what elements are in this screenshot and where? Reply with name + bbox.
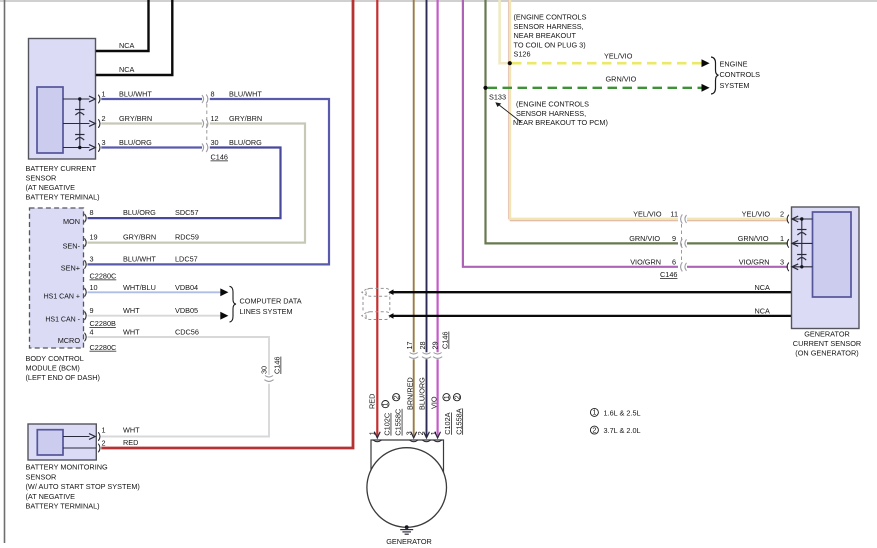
C146 arcs GRN/VIO row	[681, 239, 687, 248]
generator pin arc 3	[409, 440, 418, 442]
connector C146 arcs on BLU/ORG	[422, 353, 431, 359]
svg-text:30: 30	[211, 138, 219, 147]
svg-text:SEN-: SEN-	[63, 242, 81, 251]
svg-text:S133: S133	[489, 93, 506, 102]
connector C146 dashed link	[206, 104, 208, 143]
svg-text:VIO: VIO	[430, 396, 439, 409]
svg-text:2: 2	[592, 425, 596, 434]
svg-text:GRN/VIO: GRN/VIO	[738, 234, 769, 243]
svg-text:SDC57: SDC57	[175, 208, 199, 217]
internal bus vertical	[801, 219, 803, 267]
generator pin arrow RED	[374, 432, 380, 438]
svg-text:LINES SYSTEM: LINES SYSTEM	[240, 307, 293, 316]
svg-text:3: 3	[102, 138, 106, 147]
svg-text:SENSOR: SENSOR	[26, 472, 57, 481]
svg-text:C102C: C102C	[383, 413, 392, 436]
connector C146 arcs on VIO	[433, 353, 442, 359]
svg-text:C102A: C102A	[443, 412, 452, 434]
NCA wire upper to generator current sensor	[388, 289, 393, 295]
connector C146 arcs row1	[202, 94, 208, 103]
svg-text:YEL/VIO: YEL/VIO	[604, 52, 633, 61]
svg-text:C2280C: C2280C	[90, 343, 117, 352]
internal lead pin 2	[63, 123, 90, 125]
svg-text:RED: RED	[367, 394, 376, 409]
svg-text:BLU/ORG: BLU/ORG	[123, 208, 156, 217]
svg-text:11: 11	[670, 210, 678, 219]
connector C146 arcs on WHT vertical	[264, 376, 273, 382]
sensor capacitor lower	[797, 255, 806, 261]
pin 3 arrow	[89, 145, 95, 151]
wire RED from BMS pin2	[101, 0, 353, 448]
pin 2 arc	[98, 119, 100, 128]
svg-text:MCRO: MCRO	[58, 336, 81, 345]
circled 2 (C1558C)	[392, 394, 401, 401]
svg-text:BLU/ORG: BLU/ORG	[417, 377, 426, 410]
svg-text:2: 2	[416, 431, 425, 435]
brace computer data	[230, 286, 237, 322]
svg-text:2: 2	[452, 395, 461, 399]
wire BLU/WHT C146 pin8 to BCM SEN+	[88, 99, 330, 264]
svg-text:6: 6	[672, 257, 676, 266]
svg-text:MODULE (BCM): MODULE (BCM)	[26, 364, 80, 373]
wire BLU/WHT pin1 to C146	[101, 98, 202, 100]
svg-text:(AT NEGATIVE: (AT NEGATIVE	[26, 183, 76, 192]
svg-text:1: 1	[383, 402, 390, 406]
wire BLU/ORG pin3 to C146	[101, 146, 202, 148]
svg-text:CONTROLS: CONTROLS	[720, 70, 761, 79]
svg-text:BATTERY CURRENT: BATTERY CURRENT	[26, 164, 97, 173]
dashed YEL/VIO wire to engine controls	[512, 62, 702, 65]
battery current sensor caption	[26, 164, 100, 202]
wire WHT CAN-	[88, 315, 221, 317]
svg-text:GENERATOR: GENERATOR	[386, 537, 432, 546]
wire BLU/ORG generator pin 2	[426, 0, 428, 352]
svg-text:NEAR BREAKOUT TO PCM): NEAR BREAKOUT TO PCM)	[513, 118, 608, 127]
svg-text:29: 29	[430, 341, 439, 349]
svg-text:17: 17	[405, 341, 414, 349]
svg-text:BLU/ORG: BLU/ORG	[119, 138, 152, 147]
circled 2 (C1558A)	[452, 394, 461, 401]
YEL/VIO pale edge on horizontal	[510, 220, 678, 222]
sensor capacitor element upper	[75, 110, 84, 116]
svg-text:C1558A: C1558A	[454, 408, 463, 435]
brace engine controls	[711, 57, 719, 94]
svg-text:SEN+: SEN+	[61, 263, 80, 272]
sensor pin 3 lead w/ arrow	[792, 266, 813, 268]
BCM pin HS1 CAN+ arc	[85, 288, 87, 297]
wire YEL/VIO C146 to sensor	[687, 218, 788, 221]
junction dot	[78, 146, 81, 149]
S133 leader arrow	[499, 105, 522, 123]
ghost pin chevron 2	[362, 312, 367, 318]
svg-text:GRY/BRN: GRY/BRN	[119, 114, 152, 123]
svg-text:GRN/VIO: GRN/VIO	[606, 75, 637, 84]
generator pin arc 1b	[433, 440, 442, 442]
svg-text:VIO/GRN: VIO/GRN	[739, 257, 770, 266]
svg-text:SENSOR HARNESS,: SENSOR HARNESS,	[514, 22, 584, 31]
sensor capacitor upper	[797, 230, 806, 236]
svg-text:MON: MON	[63, 217, 80, 226]
arrow into engine controls (YEL/VIO)	[702, 59, 710, 67]
svg-text:19: 19	[90, 233, 98, 242]
splice S133 dot	[483, 86, 487, 90]
svg-text:VDB05: VDB05	[175, 306, 198, 315]
wire RED generator pin 1	[376, 0, 378, 437]
battery monitoring sensor outer box	[28, 424, 96, 460]
circled 1 (C102C)	[382, 401, 390, 408]
wire BLU/ORG C146 pin30 to BCM MON	[88, 148, 281, 219]
svg-text:NCA: NCA	[755, 307, 771, 316]
sensor pin 1 arc	[787, 239, 789, 248]
svg-text:3: 3	[780, 257, 784, 266]
legend circled 1	[590, 408, 598, 417]
generator pin arc 1	[373, 440, 382, 442]
svg-text:BATTERY MONITORING: BATTERY MONITORING	[26, 463, 108, 472]
connector C146 arcs row3	[202, 143, 208, 152]
connector C146 arcs row2	[202, 119, 208, 128]
pin 2 arrow	[89, 121, 95, 127]
generator body circle	[367, 448, 447, 528]
legend circled 2	[590, 425, 598, 434]
sensor pin 3 arc	[787, 263, 789, 272]
svg-text:WHT/BLU: WHT/BLU	[123, 283, 156, 292]
generator pin arrow BRN/RED	[411, 432, 417, 438]
svg-text:BATTERY TERMINAL): BATTERY TERMINAL)	[26, 502, 100, 511]
svg-text:S126: S126	[514, 50, 531, 59]
svg-text:RDC59: RDC59	[175, 233, 199, 242]
svg-text:12: 12	[211, 114, 219, 123]
svg-text:1: 1	[367, 431, 376, 435]
svg-text:C146: C146	[660, 270, 677, 279]
svg-text:(LEFT END OF DASH): (LEFT END OF DASH)	[26, 373, 100, 382]
svg-text:BLU/WHT: BLU/WHT	[119, 90, 152, 99]
wire VIO generator pin 1	[437, 0, 439, 352]
sensor capacitor element lower	[75, 135, 84, 141]
svg-text:NCA: NCA	[119, 41, 135, 50]
battery current sensor outer box	[29, 39, 96, 160]
svg-text:8: 8	[211, 90, 215, 99]
BCM box	[30, 208, 84, 348]
svg-text:2: 2	[780, 210, 784, 219]
sensor pin 2 arc	[787, 215, 789, 224]
svg-text:GRN/VIO: GRN/VIO	[629, 234, 660, 243]
svg-text:9: 9	[90, 306, 94, 315]
BMS pin 2 lead	[63, 447, 96, 449]
svg-text:1: 1	[442, 395, 451, 399]
svg-text:YEL/VIO: YEL/VIO	[633, 210, 662, 219]
computer data arrow CAN+	[220, 288, 228, 296]
svg-text:1.6L & 2.5L: 1.6L & 2.5L	[604, 409, 641, 418]
wire WHT/BLU CAN+	[88, 291, 221, 293]
internal lead pin 3	[63, 147, 90, 149]
svg-text:HS1 CAN +: HS1 CAN +	[44, 293, 80, 300]
svg-text:NCA: NCA	[119, 65, 135, 74]
arrow into engine controls (GRN/VIO)	[702, 84, 710, 92]
svg-text:SENSOR HARNESS,: SENSOR HARNESS,	[516, 109, 586, 118]
svg-text:TO COIL ON PLUG 3): TO COIL ON PLUG 3)	[514, 40, 586, 49]
svg-text:NCA: NCA	[755, 283, 771, 292]
pin 1 arc	[98, 95, 100, 104]
svg-text:NEAR BREAKOUT: NEAR BREAKOUT	[514, 31, 577, 40]
junction dot	[78, 97, 81, 100]
wire GRY/BRN pin2 to C146	[101, 122, 202, 124]
svg-text:BATTERY TERMINAL): BATTERY TERMINAL)	[26, 193, 100, 202]
battery current sensor inner element box	[37, 87, 63, 153]
svg-text:3: 3	[90, 255, 94, 264]
BMS pin 1 lead w/ arrow	[63, 436, 90, 438]
svg-text:BLU/WHT: BLU/WHT	[123, 255, 156, 264]
BMS caption	[26, 463, 140, 511]
generator connector box	[371, 440, 444, 472]
sensor pin 2 lead w/ arrow	[792, 218, 813, 220]
generator current sensor outer box	[792, 207, 860, 329]
wire GRN/VIO C146 to sensor	[687, 242, 788, 244]
wire NCA upper (black)	[96, 0, 149, 51]
wire VIO/GRN C146 to sensor	[687, 266, 788, 268]
svg-text:1: 1	[102, 426, 106, 435]
wire NCA lower (black)	[96, 0, 173, 75]
dashed GRN/VIO wire to engine controls	[488, 87, 703, 89]
svg-text:10: 10	[90, 283, 98, 292]
svg-text:BODY CONTROL: BODY CONTROL	[26, 354, 84, 363]
wire VIO/GRN vertical	[463, 0, 678, 267]
svg-text:GRY/BRN: GRY/BRN	[123, 233, 156, 242]
svg-text:2: 2	[392, 395, 401, 399]
svg-text:(ON GENERATOR): (ON GENERATOR)	[795, 349, 858, 358]
svg-text:1: 1	[780, 234, 784, 243]
wire GRY/BRN C146 pin12 to BCM SEN-	[88, 124, 306, 243]
C146 arcs VIO/GRN row	[681, 262, 687, 271]
circled 1 (C102A)	[442, 394, 451, 401]
svg-text:BLU/WHT: BLU/WHT	[229, 90, 262, 99]
svg-text:ENGINE: ENGINE	[720, 60, 748, 69]
svg-text:COMPUTER DATA: COMPUTER DATA	[240, 297, 302, 306]
BCM pin MON arc	[85, 214, 87, 223]
sensor pin 1 lead w/ arrow	[792, 242, 813, 244]
svg-text:WHT: WHT	[123, 426, 140, 435]
svg-text:2: 2	[102, 114, 106, 123]
BCM pin MCRO arc	[85, 333, 87, 342]
svg-text:8: 8	[90, 208, 94, 217]
generator current sensor inner box	[813, 212, 852, 297]
svg-text:YEL/VIO: YEL/VIO	[742, 210, 771, 219]
svg-text:GRY/BRN: GRY/BRN	[229, 114, 262, 123]
svg-text:WHT: WHT	[123, 306, 140, 315]
internal bus vertical	[79, 99, 81, 148]
svg-text:C146: C146	[211, 153, 228, 162]
ghost connector side dashes	[362, 297, 364, 312]
BCM pin HS1 CAN- arc	[85, 311, 87, 320]
svg-text:SENSOR: SENSOR	[26, 174, 57, 183]
YEL/VIO pale pink edge on vertical	[507, 0, 509, 219]
svg-text:1: 1	[429, 431, 438, 435]
svg-text:VDB04: VDB04	[175, 283, 198, 292]
generator pin arrow VIO	[435, 432, 441, 438]
ground symbol	[400, 525, 413, 534]
page top border	[0, 0, 877, 2]
svg-text:CURRENT SENSOR: CURRENT SENSOR	[793, 339, 861, 348]
ghost connector cavity 2	[366, 312, 390, 320]
page left border	[4, 0, 6, 543]
svg-text:RED: RED	[123, 438, 138, 447]
svg-text:LDC57: LDC57	[175, 255, 198, 264]
svg-text:(AT NEGATIVE: (AT NEGATIVE	[26, 492, 76, 501]
svg-text:3.7L & 2.0L: 3.7L & 2.0L	[604, 426, 641, 435]
NCA wire lower to generator current sensor	[388, 313, 393, 319]
wire WHT MCRO to battery monitoring sensor	[88, 337, 270, 375]
battery monitoring sensor inner box	[37, 430, 63, 455]
svg-text:3: 3	[404, 431, 413, 435]
svg-text:BLU/ORG: BLU/ORG	[229, 138, 262, 147]
computer data arrow CAN-	[220, 312, 228, 320]
svg-text:C2280C: C2280C	[90, 272, 117, 281]
svg-text:GENERATOR: GENERATOR	[804, 330, 850, 339]
svg-text:C1558C: C1558C	[394, 409, 403, 436]
svg-text:BRN/RED: BRN/RED	[405, 377, 414, 410]
svg-text:1: 1	[592, 408, 596, 417]
wire YEL/VIO vertical	[510, 0, 678, 219]
svg-text:2: 2	[102, 439, 106, 448]
svg-text:(W/ AUTO START STOP SYSTEM): (W/ AUTO START STOP SYSTEM)	[26, 482, 140, 491]
svg-text:9: 9	[672, 234, 676, 243]
svg-text:VIO/GRN: VIO/GRN	[630, 257, 661, 266]
svg-text:(ENGINE CONTROLS: (ENGINE CONTROLS	[514, 13, 587, 22]
BCM pin SEN- arc	[85, 238, 87, 247]
svg-text:WHT: WHT	[123, 328, 140, 337]
svg-text:C146: C146	[273, 357, 282, 374]
splice S126 dot	[508, 61, 512, 65]
svg-text:30: 30	[259, 366, 268, 374]
wire YEL vertical elbow into S126	[500, 0, 510, 63]
BCM pin SEN+ arc	[85, 260, 87, 269]
S126 harness note	[514, 13, 587, 59]
internal lead pin 1	[63, 98, 90, 100]
ghost pin chevron 1	[362, 289, 367, 295]
svg-text:28: 28	[418, 341, 427, 349]
svg-text:HS1 CAN -: HS1 CAN -	[45, 317, 80, 324]
generator pin arrow BLU/ORG	[424, 432, 430, 438]
svg-text:(ENGINE CONTROLS: (ENGINE CONTROLS	[516, 100, 589, 109]
wire GRN/VIO vertical	[486, 0, 679, 243]
ghost connector cavity 1	[366, 288, 390, 296]
connector C146 arcs on BRN/RED	[409, 353, 418, 359]
pin 1 arrow	[89, 96, 95, 102]
svg-text:1: 1	[102, 90, 106, 99]
C146 arcs YEL/VIO row	[681, 214, 687, 223]
pin 3 arc	[98, 143, 100, 152]
BCM caption	[26, 354, 100, 382]
svg-text:CDC56: CDC56	[175, 328, 199, 337]
svg-text:4: 4	[90, 328, 94, 337]
svg-text:C146: C146	[441, 332, 450, 349]
svg-text:SYSTEM: SYSTEM	[720, 81, 750, 90]
generator pin arc 2	[422, 440, 431, 442]
wire BRN/RED generator pin 3	[413, 0, 415, 352]
S133 harness note	[513, 100, 608, 128]
generator current sensor caption	[793, 330, 861, 358]
C146 dashed link	[681, 224, 683, 262]
